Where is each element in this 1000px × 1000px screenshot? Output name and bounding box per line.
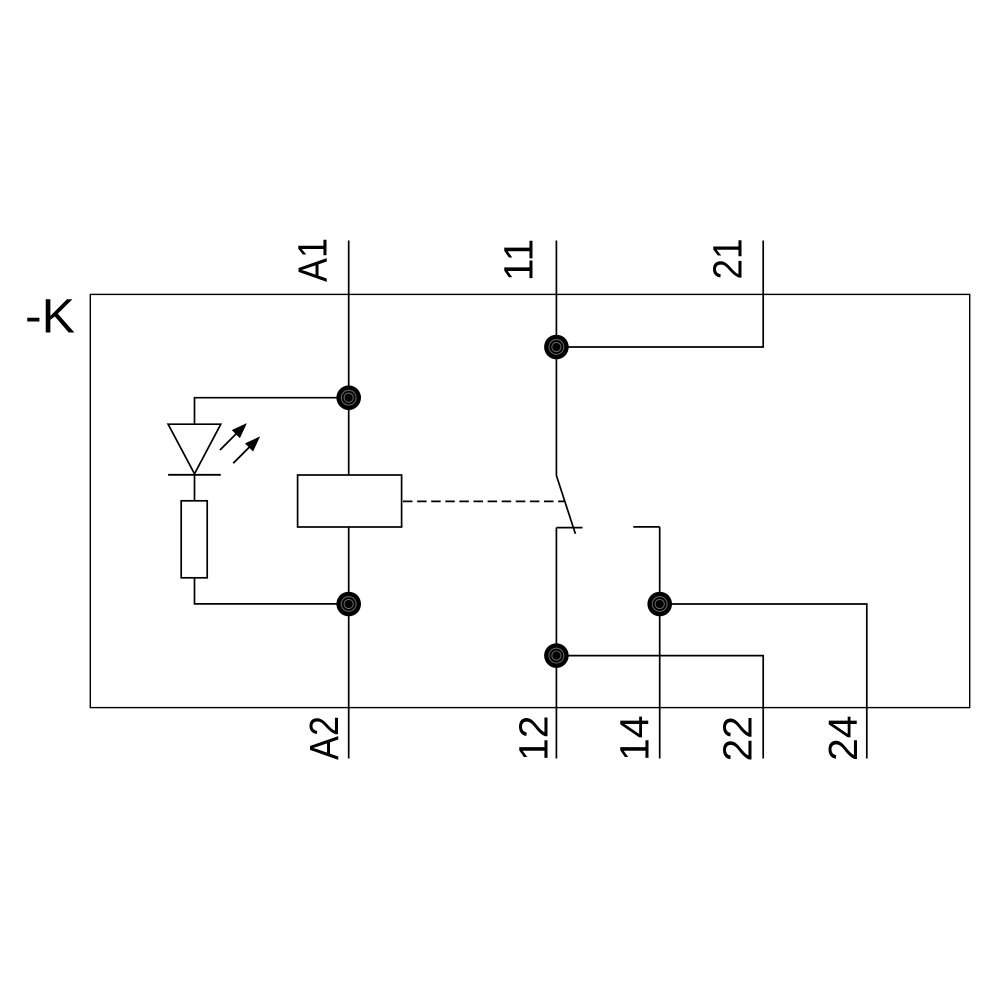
terminal node A1: [336, 385, 361, 410]
wire coil to A2 line: [348, 527, 350, 759]
svg-text:11: 11: [496, 239, 542, 282]
LED light arrow 2: [233, 437, 260, 464]
svg-text:A2: A2: [301, 716, 347, 760]
LED cathode bar: [168, 474, 221, 476]
wire node 11 to terminal 21: [556, 241, 763, 348]
switch blade: [556, 476, 575, 534]
terminal node 12: [544, 643, 569, 668]
svg-text:22: 22: [715, 716, 761, 762]
terminal node A2: [336, 592, 361, 617]
relay body outline: [90, 294, 969, 707]
wire terminal 14 line: [659, 527, 661, 759]
svg-text:14: 14: [612, 715, 658, 761]
contact 14 seat: [633, 526, 659, 528]
LED light arrow 1: [220, 424, 247, 451]
wire node 14 to terminal 24: [660, 604, 867, 759]
mechanical link dashed line: [403, 500, 564, 502]
svg-text:12: 12: [511, 715, 557, 761]
terminal node 14: [647, 592, 672, 617]
svg-text:21: 21: [705, 239, 751, 280]
terminal node 11: [544, 335, 569, 360]
LED V1 triangle: [168, 424, 221, 474]
wire node 12 to terminal 22: [556, 656, 763, 759]
wire A1 terminal line: [348, 241, 350, 476]
svg-text:24: 24: [820, 715, 866, 761]
wire terminal 11 line: [555, 241, 557, 476]
contact 12 seat: [556, 527, 582, 529]
svg-text:-K: -K: [25, 291, 75, 344]
wire LED branch top: [195, 398, 349, 424]
relay coil K1: [298, 475, 402, 527]
wire LED to resistor: [194, 474, 196, 501]
wire terminal 12 line: [555, 528, 557, 759]
wire resistor to A2 node: [195, 578, 349, 604]
resistor R1: [181, 501, 207, 578]
svg-text:A1: A1: [290, 238, 336, 282]
